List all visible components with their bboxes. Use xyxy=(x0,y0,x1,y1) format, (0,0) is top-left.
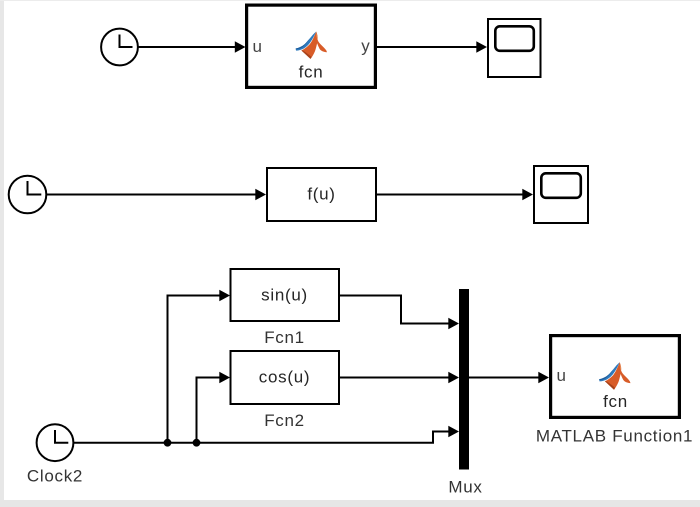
wire Clock2 trunk to Mux input 3 xyxy=(73,426,459,443)
mux Mux xyxy=(459,289,469,470)
wire branch junction B to Fcn2 input xyxy=(197,372,231,443)
wire MATLAB Function y to Scope xyxy=(377,41,487,53)
svg-text:y: y xyxy=(361,37,370,56)
svg-text:fcn: fcn xyxy=(299,63,324,82)
svg-text:u: u xyxy=(253,37,263,56)
clock Clock1 (row 2) xyxy=(9,176,47,214)
svg-text:Fcn1: Fcn1 xyxy=(264,328,305,347)
svg-text:MATLAB Function1: MATLAB Function1 xyxy=(536,427,693,446)
function block Fcn1 sin(u) xyxy=(231,269,340,321)
svg-text:Fcn2: Fcn2 xyxy=(264,411,305,430)
scope Scope1 (row 2) xyxy=(534,166,588,223)
junction dot A on Clock2 trunk xyxy=(164,439,172,447)
scope Scope (row 1) xyxy=(488,19,541,77)
svg-text:Clock2: Clock2 xyxy=(27,467,83,486)
wire branch junction A to Fcn1 input xyxy=(168,290,231,443)
MATLAB Function1 block xyxy=(551,336,680,418)
wire Fcn to Scope1 xyxy=(377,189,533,201)
function block Fcn f(u) xyxy=(267,168,376,221)
MATLAB Function block U1 xyxy=(247,5,376,87)
wire Fcn2 output to Mux input 2 xyxy=(339,372,459,384)
MATLAB logo (MATLAB Function1) xyxy=(599,362,630,389)
clock Clock (row 1) xyxy=(101,29,138,66)
svg-text:f(u): f(u) xyxy=(307,185,335,204)
svg-text:fcn: fcn xyxy=(603,392,628,411)
svg-text:sin(u): sin(u) xyxy=(261,286,308,305)
svg-text:u: u xyxy=(557,366,567,385)
wire Mux output to MATLAB Function1 input xyxy=(469,372,549,384)
clock Clock2 (row 3) xyxy=(37,424,74,461)
svg-text:cos(u): cos(u) xyxy=(259,368,310,387)
function block Fcn2 cos(u) xyxy=(231,351,340,404)
wire Clock to MATLAB Function input xyxy=(138,41,246,53)
svg-text:Mux: Mux xyxy=(448,478,482,497)
MATLAB logo (MATLAB Function) xyxy=(296,32,327,59)
junction dot B on Clock2 trunk xyxy=(193,439,201,447)
wire Fcn1 output to Mux input 1 xyxy=(339,296,459,330)
wire Clock1 to Fcn xyxy=(46,189,266,201)
